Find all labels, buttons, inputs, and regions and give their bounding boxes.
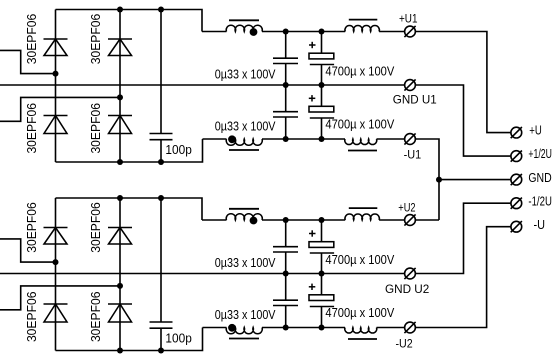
svg-text:GND: GND (528, 170, 551, 185)
svg-text:30EPF06: 30EPF06 (25, 14, 39, 65)
junction: -U1 rail / C5 (319, 136, 325, 142)
svg-text:30EPF06: 30EPF06 (89, 103, 103, 154)
wire: bridge 1 top bus with step down to +U1 rail (56, 10, 203, 32)
svg-text:4700µ x 100V: 4700µ x 100V (325, 64, 394, 78)
junction: AC input on bridge 1 right column (117, 94, 123, 100)
junction: bottom bus / 100p capacitor branch bridge 2 (158, 348, 164, 354)
svg-text:100p: 100p (165, 143, 191, 157)
svg-text:30EPF06: 30EPF06 (25, 202, 39, 253)
capacitor C5 4700µ (lower electrolytic) (309, 85, 334, 139)
svg-text:30EPF06: 30EPF06 (89, 14, 103, 65)
phase dot L4b (228, 324, 236, 332)
wire: +U2 terminal to series midpoint (416, 219, 440, 221)
wire: +U1 rail segments (202, 31, 405, 33)
terminal GND U2 (404, 268, 415, 279)
wire: 100p capacitor branch bridge 2 (160, 198, 162, 322)
wire: series midpoint to GND output (439, 179, 511, 181)
junction: GND U1 rail / C3,C5 (319, 82, 325, 88)
wire: bridge 2 bottom bus with step up to -U2 rail (56, 328, 203, 351)
capacitor C9 0µ33 (lower film cap) (273, 274, 298, 328)
junction: top bus / right diode column bridge 2 (117, 195, 123, 201)
inductor L4b (coupled choke winding, -U2 rail) (226, 328, 262, 339)
terminal -U (511, 221, 522, 232)
capacitor C3 4700µ (upper electrolytic) (309, 32, 334, 86)
capacitor C4 0µ33 (lower film cap) (273, 85, 298, 139)
inductor L3 (filter choke, -U1 rail) (345, 139, 377, 151)
wire: GND U1 terminal to +1/2U output (416, 85, 511, 156)
diode D2 (30EPF06) (108, 39, 132, 56)
phase dot L1b (228, 135, 236, 143)
diode D4 (30EPF06) (108, 116, 132, 134)
junction: AC input on bridge 2 right column (117, 283, 123, 289)
junction: -U1 rail / C4 (283, 136, 289, 142)
junction: bottom bus / 100p capacitor branch bridge 1 (158, 159, 164, 165)
junction: +U1 rail / C2 (283, 29, 289, 35)
svg-text:4700µ x 100V: 4700µ x 100V (325, 306, 394, 320)
wire: AC input 6 from left edge to bridge 2 right column midpoint (0, 286, 120, 310)
svg-text:-U1: -U1 (404, 148, 422, 162)
capacitor C6 100p (150, 322, 173, 328)
wire: 100p capacitor branch bridge 1 (160, 10, 162, 134)
wire: bridge 1 left diode column (55, 10, 57, 163)
svg-text:30EPF06: 30EPF06 (89, 292, 103, 343)
svg-text:30EPF06: 30EPF06 (89, 202, 103, 253)
terminal -U2 (404, 322, 415, 333)
diode D8 (30EPF06) (108, 304, 132, 322)
capacitor C1 100p (150, 134, 173, 140)
svg-text:100p: 100p (165, 332, 191, 346)
terminal +U (511, 127, 522, 138)
junction: series midpoint (GND) (436, 177, 442, 183)
junction: AC input on bridge 1 left column (53, 71, 59, 77)
svg-text:0µ33 x 100V: 0µ33 x 100V (215, 308, 276, 322)
inductor L5 (filter choke, +U2 rail) (345, 208, 379, 220)
terminal -1/2U (511, 198, 522, 209)
wire: AC input 1 from left edge to bridge 1 left column midpoint (0, 50, 56, 73)
wire: -U1 terminal down to series midpoint (416, 139, 440, 220)
wire: bridge 1 right diode column (119, 10, 121, 163)
svg-text:30EPF06: 30EPF06 (25, 292, 39, 343)
junction: top bus / right diode column bridge 1 (117, 7, 123, 13)
inductor L2 (filter choke, +U1 rail) (345, 20, 379, 32)
svg-text:+U1: +U1 (399, 12, 418, 26)
svg-text:-U2: -U2 (396, 337, 413, 351)
phase dot L1a (250, 28, 258, 36)
svg-text:-U: -U (534, 217, 546, 232)
wire: GND U1 rail from left edge (0, 84, 405, 86)
svg-text:30EPF06: 30EPF06 (25, 103, 39, 154)
wire: -U2 terminal to -U output (416, 227, 511, 328)
inductor L4a (coupled choke winding, +U2 rail) (226, 209, 262, 220)
svg-text:0µ33 x 100V: 0µ33 x 100V (215, 256, 276, 270)
wire: AC input 2 from left edge to bridge 1 right column midpoint (0, 97, 120, 121)
junction: GND U1 rail / C2,C4 (283, 82, 289, 88)
terminal +1/2U (511, 151, 522, 162)
capacitor C2 0µ33 (upper film cap) (273, 32, 298, 86)
terminal +U2 (404, 214, 415, 225)
wire: GND U2 terminal to -1/2U output (416, 203, 511, 273)
capacitor C7 0µ33 (upper film cap) (273, 220, 298, 274)
svg-text:0µ33 x 100V: 0µ33 x 100V (215, 120, 276, 134)
wire: +U1 terminal to +U output (416, 32, 511, 133)
wire: GND U2 rail from left edge (0, 273, 405, 275)
diode D5 (30EPF06) (44, 228, 68, 245)
svg-text:4700µ x 100V: 4700µ x 100V (325, 253, 394, 267)
wire: -U2 rail segments (203, 327, 405, 329)
junction: top bus / 100p capacitor branch bridge 2 (158, 195, 164, 201)
junction: -U2 rail / C9 (283, 325, 289, 331)
junction: top bus / 100p capacitor branch bridge 1 (158, 7, 164, 13)
inductor L1a (coupled choke winding, +U1 rail) (226, 20, 262, 31)
wire: bridge 1 bottom bus with step up to -U1 rail (56, 139, 203, 162)
diode D1 (30EPF06) (44, 39, 68, 56)
wire: bridge 2 right diode column (119, 198, 121, 351)
diode D3 (30EPF06) (44, 116, 68, 134)
junction: bottom bus / right diode column bridge 2 (117, 348, 123, 354)
wire: +U2 rail segments (202, 219, 405, 221)
svg-text:0µ33 x 100V: 0µ33 x 100V (215, 68, 276, 82)
svg-text:4700µ x 100V: 4700µ x 100V (325, 117, 394, 131)
phase dot L4a (250, 217, 258, 225)
wire: AC input 5 from left edge to bridge 2 left column midpoint (0, 239, 56, 262)
wire: bridge 2 left diode column (55, 198, 57, 351)
svg-text:+U2: +U2 (398, 201, 416, 215)
svg-text:-1/2U: -1/2U (528, 193, 552, 208)
junction: +U1 rail / C3 (319, 29, 325, 35)
capacitor C8 4700µ (upper electrolytic) (309, 220, 334, 274)
wire: -U1 rail segments (203, 138, 405, 140)
svg-text:+1/2U: +1/2U (528, 146, 552, 161)
terminal +U1 (404, 26, 415, 37)
capacitor C10 4700µ (lower electrolytic) (309, 274, 334, 328)
junction: +U2 rail / C7 (283, 217, 289, 223)
diode D6 (30EPF06) (108, 228, 132, 245)
inductor L6 (filter choke, -U2 rail) (345, 328, 377, 340)
junction: GND U2 rail / C7,C9 (283, 271, 289, 277)
wire: bridge 2 top bus with step down to +U2 rail (56, 198, 203, 220)
junction: +U2 rail / C8 (319, 217, 325, 223)
svg-text:GND U2: GND U2 (385, 282, 430, 296)
svg-text:+U: +U (529, 122, 542, 137)
junction: -U2 rail / C10 (319, 325, 325, 331)
diode D7 (30EPF06) (44, 304, 68, 322)
inductor L1b (coupled choke winding, -U1 rail) (226, 139, 262, 150)
junction: bottom bus / right diode column bridge 1 (117, 159, 123, 165)
terminal GND (511, 174, 522, 185)
terminal GND U1 (404, 79, 415, 90)
junction: GND U2 rail / C8,C10 (319, 271, 325, 277)
terminal -U1 (404, 133, 415, 144)
svg-text:GND U1: GND U1 (393, 93, 437, 107)
junction: AC input on bridge 2 left column (53, 259, 59, 265)
